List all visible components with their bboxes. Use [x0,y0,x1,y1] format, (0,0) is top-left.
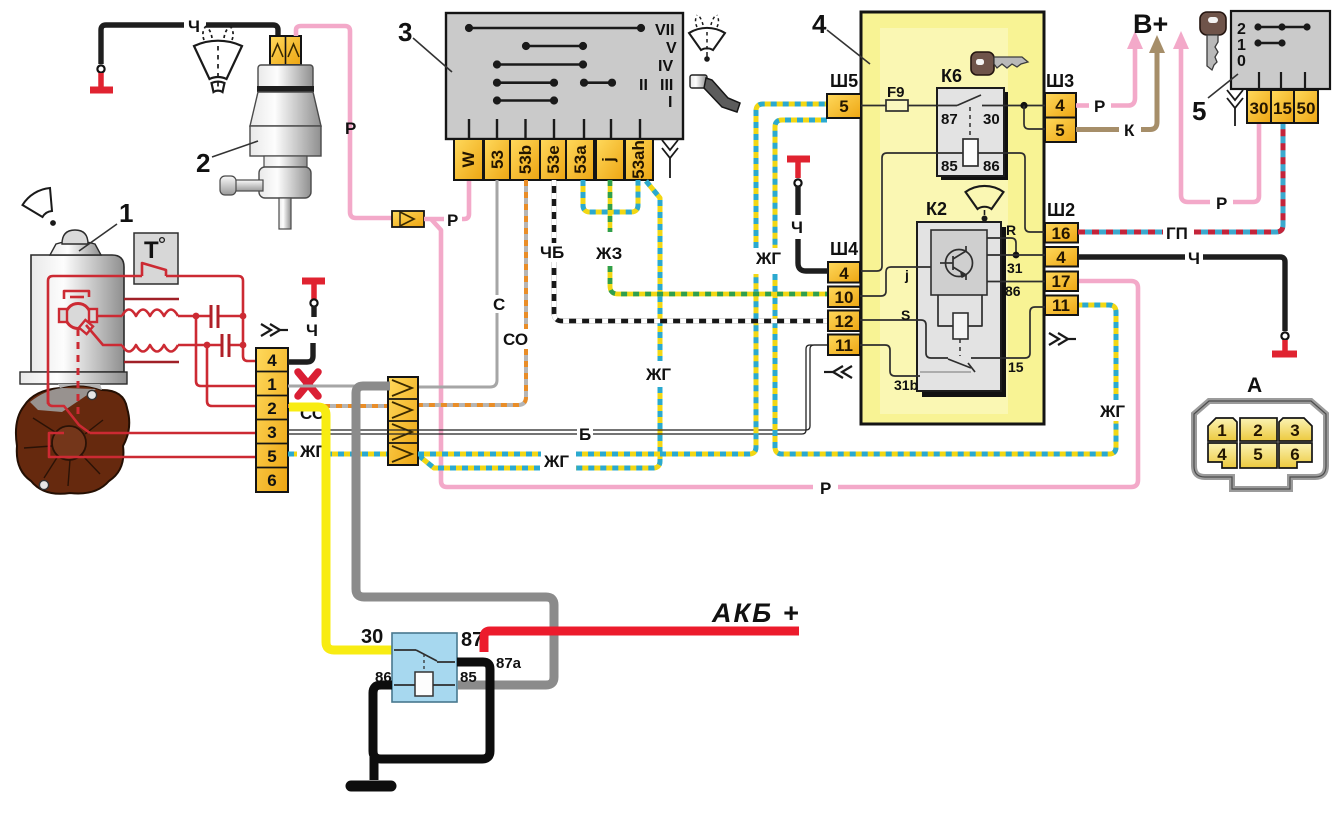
svg-text:6: 6 [1290,445,1299,464]
svg-text:5: 5 [839,97,848,116]
svg-text:16: 16 [1052,224,1071,243]
wire СО stub motor pin 2 to 4-cell connector [288,404,388,408]
svg-text:85: 85 [460,669,477,686]
svg-text:I: I [668,94,672,111]
svg-text:АКБ +: АКБ + [711,598,800,628]
wire С (grey) motor pin 1 to 4-cell connector [288,385,388,388]
svg-text:ЖГ: ЖГ [543,452,569,471]
washer pump 2: lower body [259,167,311,198]
svg-text:30: 30 [1250,99,1269,118]
junction node dot [1020,102,1027,109]
label 4 with pointer [812,9,870,64]
svg-text:А: А [1247,374,1262,397]
svg-text:2: 2 [1253,421,1262,440]
wire ЖГ motor pin 5 to the right [288,452,388,457]
ground symbol above Ш4 (red T) [787,159,810,178]
svg-text:6: 6 [267,471,276,490]
svg-text:Б: Б [579,425,591,444]
ignition terminal 30 [1247,90,1271,123]
wire ЖГ second riser Ш5-5 to Ш2-11 long run [775,120,1116,454]
svg-text:4: 4 [1217,445,1227,464]
pin Ш2-16 [1045,223,1078,243]
pin Ш4-11 [828,335,860,356]
svg-text:Ш3: Ш3 [1046,71,1074,91]
wire Р (pink) pump down to inline connector [296,26,392,218]
wire ЖЗ overlay where it crosses risers [610,266,828,294]
svg-text:S: S [901,307,910,323]
svg-text:2: 2 [196,148,210,178]
wire ЧБ overlay where it crosses risers [554,262,828,321]
K2 electronic module box [931,230,987,295]
ignition position 1 contacts [1237,37,1286,54]
added relay coil [415,672,433,696]
terminal j of switch 3 [596,139,624,180]
svg-text:1: 1 [1237,37,1246,54]
svg-text:j: j [904,267,909,283]
svg-text:31b: 31b [894,377,918,393]
svg-text:53a: 53a [571,145,590,174]
connector A pin 5 [1240,443,1277,468]
wire Р (pink) Ш3-4 to В+ arrow [1076,103,1089,108]
red dashed shaft line [77,329,80,414]
terminal 53ah of switch 3 [625,139,653,180]
washer pump 2: neck [264,156,307,167]
4-cell intermediate connector (yellow) [388,377,418,465]
svg-text:Ч: Ч [1188,249,1200,268]
terminal 53 of switch 3 [484,139,510,180]
wire Р (pink) inline connector to W and to bottom run [424,217,444,222]
washer pump 2: tapered section [250,92,321,126]
gearbox crank circle [52,426,86,460]
wire j: Ш4-10 to K2 [860,267,931,296]
ground symbol (red) top-left [90,73,113,90]
svg-text:Ч: Ч [306,321,318,340]
wire R: module to node on 31 line [987,238,1016,255]
washer pump connector (yellow, 2 cells) [270,36,301,65]
svg-text:Ш5: Ш5 [830,71,858,91]
wiper+washer icon right of switch block [689,15,725,62]
switch contact bar V [522,42,586,49]
wire Ч (black) Ш2-4 to right ground [1078,254,1185,259]
wire Ч (black) pump to ground, left segment [101,25,184,64]
svg-text:31: 31 [1007,260,1023,276]
terminal W of switch 3 [454,139,483,180]
svg-text:W: W [459,151,478,168]
svg-text:11: 11 [1052,296,1070,315]
svg-text:86: 86 [983,158,1000,175]
added relay contact 30 lead [394,649,416,651]
wire K6-30 to Ш3-4 with junction [1004,105,1045,107]
wire К (brown) Ш3-5 to В+ arrow [1076,127,1119,132]
svg-text:ЖЗ: ЖЗ [595,244,622,263]
connector A pin 2 [1240,418,1277,441]
svg-text:17: 17 [1052,272,1071,291]
gearbox spokes [24,418,103,486]
node dot left of C2 [204,342,211,349]
svg-text:VII: VII [655,22,675,39]
limit switch bracket in gearbox (red) [49,433,64,457]
wiper icon above K2 [966,186,1004,222]
svg-text:87a: 87a [496,655,522,672]
K6 dashed actuator line [969,107,971,139]
wire ЖЗ (yellow/green) from j down then right to Ш4-10 [610,180,828,294]
svg-text:2: 2 [1237,21,1246,38]
svg-text:P: P [447,211,458,230]
wire СО (grey/orange) from 53b down to connector cell2 [419,180,526,405]
K2 switch blade and contact tick [948,359,971,368]
wire ЖГ (yellow/blue) from 53ah diagonal down long vertical [418,181,660,468]
svg-text:4: 4 [1055,96,1065,115]
node dot C1 right on riser [240,313,247,320]
wire K6-85 down to Ш4-4 [860,153,937,271]
red wire from breaker to right riser and pin 4 [166,276,256,361]
choke L1 core bar [124,298,179,301]
wire Ч (black) ground to motor pin 4 [311,306,316,317]
red X mark on motor pin 1 wire [298,372,318,396]
relay K2 shadow [922,227,1006,397]
svg-text:P: P [820,479,831,498]
svg-text:3: 3 [398,17,412,47]
red wire armature diagonal to choke L2 [86,325,122,345]
node circle at right ground [1281,332,1288,339]
terminal stem ticks of switch 3 [469,119,640,139]
ignition terminal 50 [1294,90,1318,123]
connector A pin 4 [1208,443,1237,468]
svg-text:4: 4 [1056,248,1066,267]
K6 coil [963,139,978,166]
ignition switch 5 body [1231,11,1330,89]
svg-text:10: 10 [835,288,854,307]
washer pump 2: middle cylinder [250,126,321,156]
K6 coil leads 85/86 [937,152,1004,154]
relay K6 shadow [941,92,1008,180]
svg-text:III: III [660,77,673,94]
svg-text:Ч: Ч [188,17,200,36]
svg-text:53ah: 53ah [629,140,648,179]
capacitor C1 plates [211,305,218,328]
svg-text:53: 53 [488,150,507,169]
brush lower (rotated red square) [79,320,93,334]
mounting block 4 body [861,12,1044,424]
black ground bar [351,781,391,792]
svg-text:11: 11 [835,336,853,355]
svg-text:4: 4 [812,9,827,39]
armature circle (red) [66,304,91,329]
washer pump 2: bottom tube [279,198,291,229]
external circuit arrow near motor pin 4 [261,324,288,336]
key icon in block 4 [971,52,1028,75]
svg-text:R: R [1006,222,1016,238]
red wire L2 to capacitor C2 [178,344,243,347]
svg-text:15: 15 [1008,359,1024,375]
node circle below ground [794,179,801,186]
added relay body (blue) [392,633,457,702]
wire Ч (black) ground to Ш4-4 [795,186,800,215]
K2 internal grey 31b line [920,371,971,373]
svg-text:С: С [493,295,505,314]
key icon at ignition [1200,12,1226,70]
brush left (red square) [59,309,67,322]
svg-text:15: 15 [1273,99,1292,118]
label 1 with pointer [79,198,133,251]
pin Ш4-10 [828,287,860,308]
fuse F9 [886,84,908,111]
label 3 with pointer line [398,17,452,72]
svg-text:j: j [599,157,618,163]
svg-text:P: P [345,119,356,138]
red wire relay 87 to АКБ + [484,631,799,652]
svg-text:3: 3 [267,423,276,442]
label 5 with pointer [1192,74,1238,126]
gearbox screw top [87,390,96,399]
wire 15: K2 blade contact to Ш2-11 [971,307,1045,358]
capacitor C2 plates [222,334,229,357]
svg-text:T: T [144,237,159,264]
wire ЖГ jumper 53a to 53ah [583,180,638,212]
switch contact bar II [493,79,557,86]
pin Ш2-4 [1045,247,1078,267]
red wire L1 to node and capacitor C1 [178,315,243,318]
pin Ш2-17 [1045,272,1078,292]
wiper motor 1: top cap [50,241,101,255]
red wire brush feed into gearbox [48,384,90,433]
brush right (red square) [89,309,97,322]
switch contact bar IV [493,61,586,68]
switch contact bar VII [465,24,644,31]
wiper motor 1: flange [20,372,127,384]
wire junction down to Ш3-5 [1024,106,1045,130]
thermal breaker blade (red) [142,263,166,276]
armature brush bracket (red) [64,291,89,299]
switch contact bar I [493,97,557,104]
wiper motor 1: dome [62,230,88,244]
terminal 53a of switch 3 [566,139,594,180]
red wire node C2 down to pin 2 [207,345,256,406]
red wire node C1 down to pin 1 [196,316,256,386]
ignition terminal 15 [1271,90,1294,123]
ground symbol above motor pin 4 (red T) [302,281,325,299]
wire Р (pink) bottom run right half to Ш2-17 [838,281,1138,487]
svg-text:4: 4 [839,264,849,283]
black ground stem of added relay [370,757,379,780]
red wire gearbox contact to pin 3 [90,432,256,435]
svg-text:1: 1 [1217,421,1226,440]
label 2 with pointer line [196,141,258,178]
wire 31: K2 module to Ш2-4 [987,254,1045,256]
node dot C2 right on riser [240,342,247,349]
relay K2 body [917,222,1001,391]
svg-text:0: 0 [1237,53,1246,70]
svg-text:ЖГ: ЖГ [299,442,325,461]
external circuit arrow below Ш2 [1049,333,1076,345]
ignition terminal ticks [1259,72,1305,89]
K2 dashed actuator [959,339,961,356]
pin Ш5-5 [827,94,861,118]
relay K6 body [937,88,1004,176]
thermal breaker T box [134,233,178,284]
ground symbol right (red) [1272,340,1297,354]
control stalk (lever) icon [690,75,740,112]
svg-text:30: 30 [361,626,383,648]
svg-text:5: 5 [1253,445,1262,464]
roman position labels VII V IV II III I [639,22,677,111]
svg-text:5: 5 [267,447,276,466]
K2 coil [953,313,968,339]
svg-text:II: II [639,77,648,94]
svg-text:ЖГ: ЖГ [1099,402,1125,421]
washer jet icon (wiper with spray) near pump [194,26,242,92]
wire ГП (blue/red) ignition 15 to Ш2-16 [1078,123,1283,232]
svg-text:ГП: ГП [1166,224,1188,243]
svg-text:ЧБ: ЧБ [540,243,564,262]
connector A pin 6 [1279,443,1312,468]
svg-text:К6: К6 [941,66,962,86]
external circuit arrow below Ш4 [824,366,852,378]
svg-text:F9: F9 [887,84,905,101]
svg-text:К: К [1124,121,1135,140]
svg-text:СО: СО [503,330,528,349]
gearbox grey shaft area [58,384,102,390]
yellow wire motor pin 2 to relay 30 [289,407,392,650]
terminal 53e of switch 3 [540,139,566,180]
wiper icon near motor [23,188,56,226]
wire С (grey) from terminal 53 down [496,180,499,295]
gearbox screw bottom [39,480,48,489]
svg-text:87: 87 [941,111,958,128]
svg-text:53b: 53b [516,145,535,174]
added relay blade [416,650,437,661]
svg-text:Ш2: Ш2 [1047,200,1075,220]
svg-text:Ч: Ч [791,218,803,237]
svg-text:Ш4: Ш4 [830,239,858,259]
wiper motor 1: body cylinder [31,255,124,372]
pin Ш3-5 [1045,118,1076,143]
K2 coil pedestal [938,295,982,326]
washer pump 2: side nozzle tube [226,180,263,191]
node circle under ground [310,299,317,306]
thick grey wire from 4-cell connector cell 1 to relay 85 [356,386,554,685]
added relay coil leads [394,684,455,686]
terminal 53b of switch 3 [510,139,540,180]
connector A pin 3 [1279,418,1312,441]
connector A pin 1 [1208,418,1237,441]
svg-text:1: 1 [267,375,276,394]
choke L2 (red coil) [122,345,178,352]
motor connector block (6 pins) [256,348,288,492]
body-ground symbol right of 53ah [662,140,678,178]
K2 transistor symbol [940,246,973,280]
svg-text:1: 1 [119,198,133,228]
svg-text:V: V [666,40,677,57]
wire S: Ш4-12 to K2 blade [860,320,948,358]
node: connection circle at ground [97,65,104,72]
svg-text:3: 3 [1290,421,1299,440]
svg-text:53e: 53e [544,145,563,173]
svg-text:ЖГ: ЖГ [645,365,671,384]
wire Ш5-5 to fuse F9 [861,105,886,107]
connector A outline [1194,401,1326,489]
wire 31b: Ш4-11 to K2 [860,345,920,376]
brown arrowhead В+ [1149,35,1165,53]
svg-text:5: 5 [1055,121,1064,140]
wire K6-86 to Ш2-16 [1004,153,1045,232]
svg-text:85: 85 [941,158,958,175]
svg-text:12: 12 [835,312,854,331]
wire ЧБ (black/white) from 53e down then right to Ш4-12 [554,180,828,321]
K6 contact 87 lead and blade [937,105,1004,107]
wire Ч (black) pump to ground, right segment [206,25,278,36]
body-ground symbol near ignition [1227,90,1243,126]
svg-text:86: 86 [1005,283,1021,299]
pin Ш3-4 [1045,93,1076,118]
pin Ш2-11 [1045,296,1078,316]
wire Р (pink) ignition 30 to В+ arrow [1233,123,1259,202]
node dot left of C1 [193,313,200,320]
wire 86: K2 module to Ш2-17 [987,281,1045,283]
mounting block inner light panel [880,28,1008,414]
added relay 87a contact lead [437,661,455,663]
pink arrowhead В+ second [1173,31,1189,49]
svg-text:ЖГ: ЖГ [755,249,781,268]
inline connector (yellow) in washer wire [392,211,424,227]
svg-text:P: P [1094,97,1105,116]
choke L2 core bar [124,361,179,364]
switch contact bar III [580,79,615,86]
svg-text:30: 30 [983,111,1000,128]
wire F9 to relay K6 [908,105,937,107]
choke L1 (red coil) [122,310,178,317]
svg-text:50: 50 [1297,99,1316,118]
svg-text:5: 5 [1192,96,1206,126]
wire ЖГ long run motor pin5/connector to Ш5-5 riser [418,104,827,454]
switch block 3 body [446,13,683,139]
svg-text:IV: IV [658,58,673,75]
svg-text:2: 2 [267,399,276,418]
red wire gearbox contact to pin 5 [63,456,256,459]
wire Б (white, double line) motor pin 3 to Ш4-11 [288,345,828,434]
svg-text:P: P [1216,194,1227,213]
black wire relay 87a loop to ground [373,662,490,759]
added relay dashed actuator [423,654,425,672]
ignition position 2 contacts [1237,21,1311,38]
svg-text:К2: К2 [926,199,947,219]
svg-text:В+: В+ [1133,9,1168,39]
pink arrowhead В+ [1127,31,1143,49]
red wire: brush feed with thermal breaker to pin 4 [48,276,142,404]
svg-text:4: 4 [267,351,277,370]
node dot on 31 line [1013,252,1020,259]
pin Ш4-12 [828,311,860,332]
pin Ш4-4 [828,262,860,283]
washer pump 2: cap cylinder [220,65,321,229]
red wire armature to choke L1 [97,315,122,318]
gearbox housing (brown) [16,385,129,493]
K6 contact labels [941,111,1000,175]
